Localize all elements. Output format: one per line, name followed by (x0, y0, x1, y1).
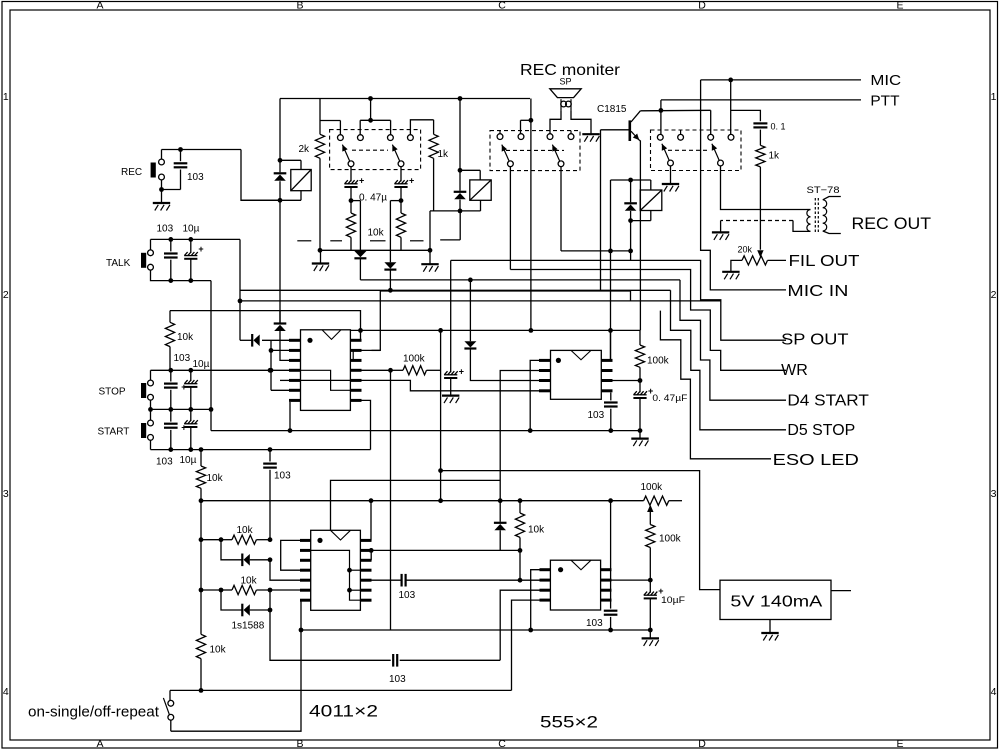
svg-text:103: 103 (156, 457, 173, 468)
svg-text:103: 103 (586, 618, 603, 629)
wire to ground 2k (320, 250, 322, 263)
contact C1 riser to PTT/collector (660, 100, 662, 134)
svg-text:ST−78: ST−78 (807, 185, 840, 196)
svg-text:C: C (498, 0, 506, 12)
block C contact x=680.6 (678, 134, 684, 140)
svg-text:1: 1 (991, 91, 997, 103)
U1 pin12-13 tie (352, 350, 354, 360)
rail y=301 TALK to SP jog (239, 239, 241, 340)
node K3/SP jog (628, 249, 633, 254)
svg-text:C: C (498, 738, 506, 750)
wire K3 down (630, 221, 632, 251)
svg-text:WR: WR (781, 362, 808, 379)
U2 left pin 2 (300, 549, 311, 552)
svg-text:TALK: TALK (106, 258, 131, 269)
wire block B feed down to IC1 rail (530, 99, 532, 331)
U4 right pin 5 (601, 599, 612, 602)
U1 pin13 jog (372, 349, 381, 351)
svg-text:+: + (409, 175, 414, 185)
svg-text:+: + (181, 422, 186, 432)
U4 pin1 mark (558, 567, 563, 572)
U1 right pin 8 (350, 399, 361, 402)
node 500 rail/440col (438, 498, 443, 503)
svg-text:FIL OUT: FIL OUT (789, 253, 861, 270)
block A lever 1 (342, 145, 349, 161)
U1 left pin 2 (289, 349, 301, 352)
U3 right pin 6 (601, 379, 612, 382)
node pin11/100k (388, 368, 393, 373)
capacitor 103 (TALK) (170, 239, 172, 251)
node 500/IC4 col (608, 498, 613, 503)
U3 pin2 down to 500 rail (500, 371, 539, 501)
100k + 0.47uF column (639, 330, 641, 345)
U1 right pin 9 (350, 389, 361, 392)
diode D (K1 flyback) (279, 160, 281, 172)
wire K2 bottom rail (430, 210, 481, 212)
svg-text:B: B (296, 738, 303, 750)
rail y=290.3 D5 STOP line (240, 289, 671, 291)
SP OUT routing (631, 251, 786, 340)
block A contact x=360.4 (358, 135, 364, 141)
wire REC top (161, 150, 163, 160)
pushbutton REC (151, 163, 156, 178)
box 5V 140mA (720, 580, 831, 619)
U2 internal wires (311, 550, 361, 600)
ground block A/B rail (421, 264, 438, 272)
svg-text:10k: 10k (207, 473, 224, 484)
TALK bottom rail (151, 270, 212, 281)
node REC/C junction (178, 147, 183, 152)
block B contact 4 stub (570, 131, 572, 134)
node K3 rail/pole B2 bar (608, 249, 613, 254)
rail y=630 (301, 629, 650, 631)
Q1 emitter arrow (631, 131, 639, 140)
svg-text:D5 STOP: D5 STOP (787, 422, 855, 439)
capacitor 103 (U4) (604, 610, 618, 612)
switch lever (163, 698, 169, 715)
svg-text:SP OUT: SP OUT (781, 331, 849, 348)
node 690 rail (199, 688, 204, 693)
resistor 10k (below START rail) (200, 450, 202, 466)
MIC line (701, 79, 861, 81)
node 500/IC2 pin14 (369, 498, 374, 503)
svg-text:B: B (296, 0, 303, 12)
block C pole 2 (718, 160, 724, 166)
resistor 10k (IC2 pin6 row upper) (201, 539, 221, 541)
rail y=279.9 D4 START line (360, 279, 680, 281)
ground speaker (582, 134, 599, 142)
node 500/IC3 pin2 (498, 498, 503, 503)
U2 left pin 1 (300, 539, 311, 542)
svg-text:2: 2 (991, 289, 997, 301)
node rail/block-A feed (368, 96, 373, 101)
ESO LED line (170, 311, 361, 331)
ground U3 cap (631, 439, 648, 447)
U3 left pin 2 (539, 369, 551, 372)
5V right lead (831, 590, 851, 592)
svg-text:103: 103 (389, 674, 406, 685)
resistor 1k (A) (433, 120, 435, 135)
node K3 bottom (628, 218, 633, 223)
U4 left pin 4 (540, 599, 551, 602)
ground 2k rail (312, 264, 329, 272)
Q1 collector (631, 111, 640, 122)
rail y=690.4 (170, 689, 512, 691)
resistor 10k (bottom left) (200, 590, 202, 634)
svg-text:100k: 100k (641, 482, 664, 493)
svg-text:10k: 10k (177, 332, 194, 343)
svg-text:E: E (896, 738, 903, 750)
ground 10uF (642, 638, 659, 646)
U1 pin2/6 column (270, 340, 272, 390)
block B contact 1 stub (499, 131, 501, 134)
U1 left pin 7 (289, 399, 301, 402)
node K2 bottom (458, 209, 463, 214)
node K1 bottom (278, 198, 283, 203)
relay K1 coil (291, 170, 311, 191)
capacitor 0.47u (pole A1) (350, 167, 352, 182)
IC U4 555 (550, 560, 600, 610)
switch block C dashed box (651, 130, 742, 171)
svg-text:MIC IN: MIC IN (787, 283, 848, 300)
node diode A2 / D5 line (388, 288, 393, 293)
block B pole 1 (508, 161, 514, 167)
dashed marks y=241 (297, 240, 311, 242)
svg-text:3: 3 (3, 488, 9, 500)
rail y=409.4 (151, 408, 212, 410)
svg-text:PTT: PTT (870, 92, 899, 109)
relay K3 coil (640, 190, 662, 211)
U4 right pin7 line (612, 579, 651, 581)
U3 left pin 3 (539, 379, 551, 382)
capacitor 10u (STOP) (190, 370, 192, 381)
shield dashed (721, 220, 793, 222)
node gnd tap (428, 248, 433, 253)
U2 notch riser from 480 (331, 480, 501, 530)
svg-text:START: START (98, 427, 130, 438)
U2 right pin 9 (360, 589, 371, 592)
svg-text:20k: 20k (738, 244, 753, 254)
Q1 base wire (601, 129, 630, 131)
U4 right pin 8 (601, 568, 612, 571)
block C pole 1 to ground (670, 166, 672, 183)
svg-text:REC OUT: REC OUT (852, 215, 932, 233)
svg-text:REC: REC (121, 167, 142, 178)
U1 right pin 10 (350, 379, 361, 382)
pushbutton STOP (141, 383, 146, 398)
capacitor 0.1 (731, 110, 761, 121)
MIC down to MIC IN (701, 80, 786, 290)
node 100k/0.47u (638, 378, 643, 383)
svg-text:103: 103 (274, 471, 291, 482)
relay K2 coil branch (459, 99, 461, 191)
U3 pin1 mark (556, 358, 561, 363)
svg-text:ESO LED: ESO LED (773, 452, 859, 469)
diode to U3 pin3 (469, 280, 471, 341)
x=270 col upper (103 cap) (269, 450, 271, 462)
to IC2 pin6 (256, 589, 300, 591)
U2 left pin 7 (300, 599, 311, 602)
block A contact 2/3 feed (370, 99, 372, 121)
U2 pin14 riser (370, 501, 372, 541)
U1 right pin 13 (350, 349, 361, 352)
resistor 10k (col 520) (519, 501, 521, 513)
node collector/PTT (659, 108, 664, 113)
svg-text:4: 4 (3, 686, 9, 698)
U2 right pin 11 (360, 569, 371, 572)
block A contact x=390.4 (388, 135, 394, 141)
svg-text:2k: 2k (299, 144, 311, 155)
wiper lead (649, 510, 651, 525)
node pole A2 junction (399, 198, 404, 203)
resistor 10k (pole A2) (400, 201, 402, 213)
U2 left pin 5 (300, 579, 311, 582)
svg-text:1k: 1k (769, 151, 781, 162)
IC U3 555 (551, 350, 602, 399)
svg-text:10µ: 10µ (193, 359, 210, 370)
capacitor 0.47u (pole A2) (400, 167, 402, 182)
wire down (200, 540, 202, 590)
svg-text:10µ: 10µ (180, 455, 197, 466)
U1 internal wires (301, 370, 351, 390)
svg-text:D: D (698, 738, 706, 750)
T1 primary bottom lead + shield (793, 221, 811, 232)
block C pole 1 (668, 160, 674, 166)
resistor 10k (STOP top) (165, 322, 174, 346)
transistor Q1 C1815 (628, 120, 631, 141)
col x=440.6 (440, 330, 442, 470)
svg-text:10k: 10k (210, 645, 227, 656)
wire K1 bottom rail (241, 199, 301, 201)
U2 right pin 14 (360, 539, 371, 542)
capacitor 103 (660 line) (392, 654, 394, 667)
(crossing wires) (279, 311, 281, 323)
ground REC (153, 203, 170, 211)
wire emitter down to 100k (639, 140, 640, 330)
node 500/10k (518, 498, 523, 503)
rail y=500.7 (201, 500, 644, 502)
transformer T1 primary coil (807, 210, 811, 232)
capacitor 10uF (649, 580, 651, 593)
node 330/440 col (438, 328, 443, 333)
D5 STOP staircase (671, 290, 787, 430)
U2 pin1 mark (317, 538, 322, 543)
wire 550 to 580 (519, 550, 521, 580)
block C contact x=660.3 (657, 134, 663, 140)
svg-text:103: 103 (588, 410, 605, 421)
node D4 line / diode to IC3 (468, 278, 473, 283)
rail y=330.4 (IC1 top / Vdd) (350, 329, 640, 331)
block A inner dashed (352, 149, 388, 151)
svg-text:A: A (96, 738, 103, 750)
svg-text:103: 103 (187, 172, 204, 183)
T1 primary top lead (807, 209, 811, 211)
svg-text:3: 3 (991, 488, 997, 500)
speaker SP (550, 89, 581, 98)
resistor 100k (U3) (635, 345, 644, 367)
U2 left pin 6 (300, 589, 311, 592)
pushbutton START (141, 423, 146, 438)
U3 right pin8 riser (610, 330, 612, 360)
diode (row1) (221, 540, 242, 560)
svg-text:C1815: C1815 (597, 104, 627, 115)
wire to IC1 pin13 (362, 291, 381, 350)
U3 right pin 8 (601, 359, 612, 362)
resistor 100k (U1) (403, 366, 427, 375)
capacitor 103 (U2 pin10) (401, 574, 403, 587)
x=270 col to IC2 pin5 (270, 560, 300, 580)
svg-text:103: 103 (399, 590, 416, 601)
block C contact x=731 (728, 134, 734, 140)
block B contact x=500 (497, 134, 503, 140)
node 500 rail west (199, 498, 204, 503)
U4 right pin 7 (601, 579, 612, 582)
U4 pin4 to 690 rail (512, 600, 540, 690)
U2 right pin 13 (360, 549, 371, 552)
U4 notch (571, 560, 591, 570)
svg-text:103: 103 (157, 224, 174, 235)
wire 1k to K2 rail (433, 158, 435, 211)
resistor 2k (319, 99, 321, 135)
svg-text:+: + (198, 244, 203, 254)
rail y=291 pin13 (380, 291, 630, 301)
U1 pin8 to START rail (362, 400, 371, 449)
U3 right pin6 to 100k node (613, 380, 641, 382)
svg-text:0. 1: 0. 1 (771, 122, 786, 132)
U1 left pin 6 (289, 389, 301, 392)
node K1 top (278, 158, 283, 163)
TALK top rail (151, 238, 241, 240)
U3 right pin 7 (601, 369, 612, 372)
node 430 rail/pin7 (288, 428, 293, 433)
U4 right pin 6 (601, 589, 612, 592)
IC U1 4011 (301, 330, 351, 411)
node 580/col520 (518, 578, 523, 583)
svg-text:10k: 10k (368, 228, 385, 239)
svg-text:4: 4 (991, 686, 997, 698)
resistor 100k (col 650) (646, 525, 655, 548)
U1 pin1 mark (307, 338, 312, 343)
wire REC top rail (162, 149, 242, 151)
node 430 east end (638, 428, 643, 433)
U4 left pin 1 (540, 568, 551, 571)
block B pole 1 down (WR net) (509, 167, 511, 270)
node pole A1 junction (349, 198, 354, 203)
SP OUT line west part + 0.47u cap to gnd (451, 259, 631, 261)
U1 pin7 down (289, 402, 291, 431)
relay K2 coil (470, 180, 491, 200)
svg-text:A: A (96, 0, 103, 12)
U2 right pin 8 (360, 599, 371, 602)
U1 pin11 / 100k (362, 369, 391, 371)
x=270 lower col to 660 line (270, 590, 391, 660)
svg-text:100k: 100k (659, 534, 682, 545)
svg-text:10k: 10k (241, 576, 258, 587)
node TALK rail / 301 rail (238, 299, 243, 304)
block B contact x=571 (568, 134, 574, 140)
node K2 top (458, 168, 463, 173)
capacitor 103 (STOP) (170, 370, 172, 381)
wire K1 bottom to D5 IC1 pin3 (279, 200, 281, 322)
U2 left pin 3 (300, 559, 311, 562)
node row2 east (268, 588, 273, 593)
node 330/block B col (529, 328, 534, 333)
node block B feed (529, 118, 534, 123)
FIL OUT line (768, 259, 787, 261)
PTT line (661, 99, 861, 101)
svg-text:4011×2: 4011×2 (309, 702, 378, 721)
wire 2k to block A contact 1 (320, 120, 340, 122)
speaker leads (550, 110, 561, 133)
block B inner dashed (506, 149, 564, 151)
pushbutton TALK (141, 253, 146, 268)
contact C4 riser to MIC (730, 80, 732, 134)
diode (K3 flyback) (630, 180, 632, 202)
svg-text:10k: 10k (237, 525, 254, 536)
U1 pin5 stub wire (280, 379, 289, 381)
block B pole 2 down (560, 167, 562, 251)
WR line (510, 270, 786, 371)
U1 right pin 11 (350, 369, 361, 372)
resistor 10k (pole A1) (350, 201, 352, 213)
block B pole 2 (558, 161, 564, 167)
rail y=250.3 (320, 249, 430, 251)
svg-text:+: + (459, 366, 464, 376)
svg-text:STOP: STOP (99, 387, 126, 398)
wire pole B2 to relay K3 (561, 250, 631, 252)
node MIC/contact C4 (728, 78, 733, 83)
svg-text:555×2: 555×2 (540, 713, 598, 732)
block A pole 1 (348, 161, 354, 167)
svg-text:10µF: 10µF (661, 595, 686, 605)
svg-text:SP: SP (560, 77, 572, 87)
U2 pin7 down (171, 600, 301, 731)
collector node line (640, 109, 710, 112)
capacitor 0.47u SP (444, 371, 458, 375)
node 430/U3 pin1 (528, 428, 533, 433)
U1 pin14 riser (360, 330, 362, 340)
svg-text:1k: 1k (438, 149, 450, 160)
K3 bottom tie (631, 220, 651, 222)
svg-text:+: + (181, 382, 186, 392)
block A lever 2 (392, 145, 399, 161)
svg-text:0. 47µF: 0. 47µF (652, 393, 688, 403)
transformer core dashed (814, 198, 816, 233)
resistor 1k (C) (759, 130, 761, 146)
svg-text:5V 140mA: 5V 140mA (730, 593, 822, 610)
diode (pole A1, 1s1588) (359, 201, 361, 251)
diode (K2 flyback) (454, 191, 467, 193)
U2 pin1-pin4 bracket (281, 540, 300, 570)
block C contact x=710.7 (708, 134, 714, 140)
svg-text:0. 47µ: 0. 47µ (359, 192, 387, 203)
ground SP cap (442, 396, 459, 404)
U4 left pin 3 (540, 589, 551, 592)
wire 660 to IC4 pin3 (500, 590, 539, 660)
U2 right pin 12 (360, 559, 371, 562)
svg-text:103: 103 (174, 353, 191, 364)
block A contact x=410.4 (408, 135, 414, 141)
wire K2 rail down to gnd node (429, 211, 431, 250)
svg-text:1: 1 (3, 91, 9, 103)
wire TALK to 430 rail (210, 281, 212, 431)
STOP top rail / U1 pin4 (151, 369, 290, 371)
wire to ground (161, 190, 163, 203)
block B lever 2 (552, 145, 559, 161)
capacitor 0.47uF (U3) (633, 391, 647, 395)
K2 rail second descent (459, 211, 461, 240)
wire 2k bottom lead (319, 158, 321, 250)
